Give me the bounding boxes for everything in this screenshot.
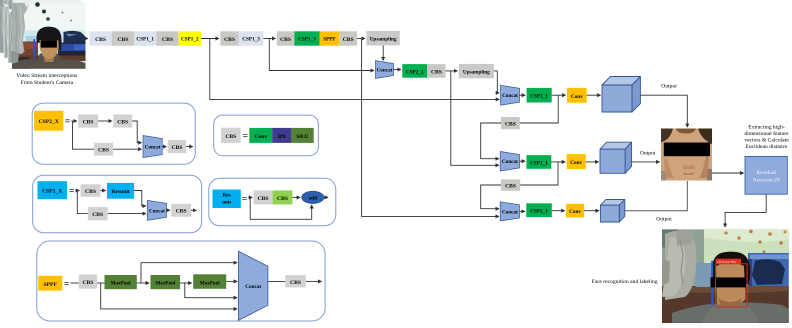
- CBS l5a: [79, 274, 97, 288]
- wire Conv1 to cube1: [587, 94, 601, 96]
- wire equals to CBS l1: [71, 120, 77, 122]
- svg-text:Upsampling: Upsampling: [370, 37, 397, 43]
- svg-text:CSP2_1: CSP2_1: [530, 209, 548, 215]
- wire equals to CBS l2a: [76, 190, 80, 192]
- svg-text:CBS: CBS: [505, 184, 516, 190]
- skip wire CSP1_2 to ConcatB: [210, 39, 499, 100]
- CBS l1b: [113, 114, 132, 127]
- svg-text:From Student's Camera: From Student's Camera: [21, 80, 74, 86]
- backbone CBS g3 end: [339, 31, 357, 45]
- svg-text:=: =: [242, 195, 247, 205]
- wire ConcatD to CSP2_1d: [520, 210, 525, 212]
- wire out legend1: [186, 146, 193, 148]
- svg-text:CSP2_1: CSP2_1: [530, 160, 548, 166]
- Conv def block: [249, 128, 272, 143]
- Resunit block: [107, 183, 134, 199]
- wire CBS b1 to ConcatC: [481, 123, 501, 159]
- skip wire CBSa to ConcatC: [451, 71, 499, 165]
- svg-text:1 F12-44 78%: 1 F12-44 78%: [717, 260, 737, 264]
- wire Upsampling1 down to ConcatA: [382, 45, 384, 60]
- wire CBS l1c to Concat l1: [113, 148, 142, 150]
- svg-text:=: =: [243, 131, 248, 141]
- svg-text:=: =: [64, 280, 69, 290]
- svg-text:Resunit: Resunit: [111, 189, 129, 195]
- svg-text:dimensional feature: dimensional feature: [744, 130, 789, 137]
- CBS l4a: [254, 190, 273, 204]
- svg-text:CBS: CBS: [162, 37, 173, 43]
- svg-text:Concat: Concat: [377, 68, 393, 74]
- svg-text:Res: Res: [223, 193, 231, 199]
- svg-text:unit: unit: [222, 200, 231, 206]
- svg-text:CBS: CBS: [431, 69, 442, 75]
- CSP2_1 d: [526, 203, 552, 217]
- svg-text:MaxPool: MaxPool: [200, 280, 220, 286]
- CBS l1a: [78, 114, 98, 127]
- Concat D: [500, 202, 519, 221]
- CBS b1 below row1: [501, 117, 520, 129]
- wire CSP2_1b to Conv1: [552, 94, 566, 96]
- MaxPool 2: [151, 275, 181, 289]
- backbone CSP1_1: [134, 31, 156, 45]
- wire Concat l2 to CBS l2c: [167, 209, 170, 211]
- svg-text:CBS: CBS: [258, 196, 269, 202]
- svg-text:CBS: CBS: [82, 280, 93, 286]
- wire CBS l2a to Resunit: [101, 190, 106, 192]
- video stream image stack back layer 4: [0, 0, 73, 53]
- svg-text:CBS: CBS: [290, 280, 301, 286]
- svg-text:vectors & Calculate: vectors & Calculate: [744, 138, 789, 144]
- wire Upsampling2 to ConcatB: [494, 71, 499, 93]
- svg-text:=: =: [69, 187, 74, 197]
- Conv 3: [566, 204, 584, 218]
- svg-text:CBS: CBS: [118, 37, 129, 43]
- backbone CBS g2: [220, 31, 238, 45]
- svg-text:CSP2_1: CSP2_1: [530, 94, 548, 100]
- svg-text:Conv: Conv: [570, 160, 582, 166]
- svg-text:Extracting high-: Extracting high-: [748, 125, 785, 131]
- video stream image stack back layer 2: [8, 0, 81, 63]
- wire residual to bottom image: [725, 194, 766, 227]
- wire row1 down to CBS b1: [520, 95, 558, 123]
- svg-text:CSP1_2: CSP1_2: [181, 37, 199, 43]
- backbone CSP1_2: [179, 31, 201, 45]
- svg-text:SiLU: SiLU: [296, 134, 308, 140]
- CBS l2c: [171, 204, 191, 217]
- wire CSP1_2 to CBS g2: [201, 38, 219, 40]
- backbone CBS g3: [277, 31, 295, 45]
- CBS l1c: [94, 143, 113, 156]
- wire CBSa to Upsampling2: [446, 70, 458, 72]
- CSP2_1 a: [402, 64, 427, 78]
- skip wire CBS g3end to ConcatD: [362, 39, 499, 217]
- wire CBS to Upsampling1: [357, 38, 365, 40]
- wire Resunit to Concat l2: [134, 191, 146, 207]
- branch wire legend2: [77, 191, 88, 214]
- svg-text:CBS: CBS: [85, 189, 96, 195]
- MaxPool 1: [105, 275, 137, 289]
- legend box 1 CSP2_X: [32, 103, 195, 164]
- skip wire MaxPool2 bottom to Concat l5: [185, 283, 237, 298]
- wire Concat l5 to CBS l5b: [268, 280, 285, 282]
- Conv 2: [567, 154, 586, 169]
- cube 3: [600, 200, 624, 223]
- backbone CBS block 1: [90, 31, 112, 45]
- wire Concat l1 to CBS l1d: [162, 146, 166, 148]
- face image: [661, 129, 712, 181]
- CBS b2 below row2: [501, 179, 520, 191]
- CSP2_X block: [34, 111, 63, 131]
- svg-text:CBS: CBS: [505, 122, 516, 128]
- svg-text:Output: Output: [661, 84, 677, 90]
- wire cube2 to face image: [632, 161, 660, 163]
- CBS l2a: [81, 184, 101, 197]
- svg-text:CBS: CBS: [280, 37, 291, 43]
- svg-text:Euclidean distance: Euclidean distance: [745, 144, 788, 150]
- skip wire MaxPool1 top to Concat l5: [141, 263, 237, 283]
- wire CBS b2 to ConcatD: [481, 185, 501, 209]
- wire MaxPool1 to MaxPool2: [137, 282, 149, 284]
- wire CSP1_3 to CBS g3: [263, 38, 275, 40]
- wire row2 down to CBS b2: [520, 162, 558, 185]
- svg-text:Concat: Concat: [245, 284, 261, 290]
- wire cube1 to face image: [640, 95, 687, 127]
- wire CBS l1b to Concat l1: [132, 121, 141, 143]
- svg-text:Concat: Concat: [502, 159, 518, 165]
- Concat legend5 big trapezoid: [239, 251, 268, 320]
- svg-text:SPPF: SPPF: [44, 282, 58, 288]
- wire ConcatA to CSP2_1a: [394, 69, 401, 71]
- svg-text:CSP1_1: CSP1_1: [136, 37, 154, 43]
- svg-text:CSP2_X: CSP2_X: [39, 119, 59, 125]
- SiLU def block: [291, 128, 313, 143]
- Concat B: [501, 85, 520, 105]
- SPPF def block: [38, 276, 62, 291]
- MaxPool 3: [193, 274, 226, 289]
- backbone CSP1_3 g2: [239, 31, 264, 45]
- wire MaxPool3 to Concat l5: [226, 280, 237, 282]
- cube 1: [602, 77, 640, 113]
- Concat legend1: [143, 136, 162, 158]
- backbone SPPF: [320, 31, 340, 45]
- wire face to residual network: [712, 172, 744, 174]
- svg-text:CSP1_3: CSP1_3: [298, 37, 316, 43]
- CBS l1d: [168, 140, 186, 153]
- svg-text:CSP1_3: CSP1_3: [242, 37, 260, 43]
- svg-text:CBS: CBS: [92, 212, 103, 218]
- backbone CBS block 3: [156, 31, 178, 45]
- wire Conv3 to cube3: [584, 210, 599, 212]
- svg-text:CBS: CBS: [343, 37, 354, 43]
- Residual Network-29 box: [745, 156, 787, 194]
- legend box 3 CBS definition: [214, 115, 319, 156]
- svg-text:Video Stream interceptions: Video Stream interceptions: [16, 73, 77, 79]
- add ellipse: [302, 191, 324, 203]
- wire out legend2: [191, 209, 196, 211]
- svg-text:Output: Output: [640, 151, 656, 157]
- svg-text:CSP1_X: CSP1_X: [42, 189, 62, 195]
- svg-text:MaxPool: MaxPool: [111, 280, 131, 286]
- backbone CBS block 2: [112, 31, 134, 45]
- svg-text:CBS: CBS: [171, 145, 182, 151]
- svg-text:Concat: Concat: [145, 145, 161, 151]
- skip wire CSP1_3 to ConcatA: [269, 39, 374, 71]
- svg-text:MaxPool: MaxPool: [155, 280, 175, 286]
- svg-text:Upsampling: Upsampling: [463, 69, 490, 75]
- wire CBS l2b to Concat l2: [108, 213, 146, 215]
- legend box 4 Resunit definition: [209, 178, 336, 226]
- svg-text:CBS: CBS: [83, 119, 94, 125]
- CBS l4b green: [273, 190, 293, 204]
- svg-text:CBS: CBS: [225, 134, 236, 140]
- CBS def block: [221, 128, 241, 143]
- wire ConcatB to CSP2_1b: [520, 94, 526, 96]
- wire out legend4: [324, 196, 328, 198]
- wire cube3 to face image bottom: [625, 181, 688, 211]
- wire equals to CBS l4a: [249, 196, 253, 198]
- wire out legend5: [306, 280, 322, 282]
- wire image to CBS: [86, 38, 89, 40]
- skip wire CBS l5a bottom to Concat l5: [101, 283, 237, 309]
- svg-text:Face recognition and labeling: Face recognition and labeling: [591, 279, 658, 285]
- CBS l2b: [88, 207, 108, 220]
- CSP2_1 c: [527, 155, 552, 169]
- wire equals to CBS l5a: [71, 282, 79, 284]
- svg-text:Concat: Concat: [149, 208, 165, 214]
- svg-text:Concat: Concat: [502, 209, 518, 215]
- svg-text:CBS: CBS: [277, 196, 288, 202]
- bottom image face recognition: [662, 229, 789, 323]
- svg-text:CBS: CBS: [117, 119, 128, 125]
- wire Conv2 to cube2: [586, 161, 599, 163]
- Conv 1: [567, 88, 587, 103]
- wire MaxPool2 to MaxPool3: [180, 282, 192, 284]
- wire CBS l1a to CBS l1b: [98, 120, 112, 122]
- svg-text:Concat: Concat: [502, 93, 518, 99]
- svg-text:Residual: Residual: [756, 170, 776, 176]
- wire ConcatC to CSP2_1c: [520, 160, 526, 162]
- wire CBS l4b to add: [292, 196, 300, 198]
- svg-text:CSP2_1: CSP2_1: [406, 69, 424, 75]
- svg-text:Conv: Conv: [254, 134, 267, 140]
- CBS a: [427, 64, 445, 78]
- video stream image stack back layer 3: [4, 0, 77, 58]
- Res unit block: [213, 190, 241, 209]
- CBS l5b: [285, 275, 306, 287]
- Concat C: [500, 152, 519, 172]
- CSP2_1 b: [527, 88, 552, 103]
- Upsampling 1: [366, 31, 399, 45]
- branch wire legend1: [73, 121, 95, 149]
- wire CBS l5a to MaxPool1: [97, 282, 104, 284]
- feedback wire legend4: [250, 197, 312, 219]
- legend box 2 CSP1_X: [33, 175, 202, 233]
- svg-text:Conv: Conv: [571, 94, 583, 100]
- cube 2: [600, 142, 632, 173]
- svg-text:Conv: Conv: [569, 209, 581, 215]
- svg-text:Network-29: Network-29: [753, 178, 780, 184]
- svg-text:=: =: [65, 117, 70, 127]
- svg-text:CBS: CBS: [95, 37, 106, 43]
- svg-text:Output: Output: [656, 217, 672, 223]
- video stream front image: [12, 2, 86, 69]
- Concat legend2: [147, 200, 166, 220]
- wire CSP2_1d to Conv3: [552, 210, 565, 212]
- backbone CSP1_3 g3 (green): [294, 31, 319, 45]
- svg-text:add: add: [309, 196, 317, 202]
- wire CSP2_1c to Conv2: [551, 161, 565, 163]
- Upsampling 2: [459, 64, 494, 78]
- svg-text:SPPF: SPPF: [323, 37, 335, 43]
- svg-text:CBS: CBS: [98, 148, 109, 154]
- CSP1_X block: [38, 181, 68, 199]
- svg-text:BN: BN: [278, 134, 286, 140]
- legend box 5 SPPF definition: [37, 241, 325, 321]
- Concat A: [376, 61, 394, 79]
- svg-text:CBS: CBS: [176, 209, 187, 215]
- svg-text:CBS: CBS: [224, 37, 235, 43]
- BN def block: [272, 128, 291, 143]
